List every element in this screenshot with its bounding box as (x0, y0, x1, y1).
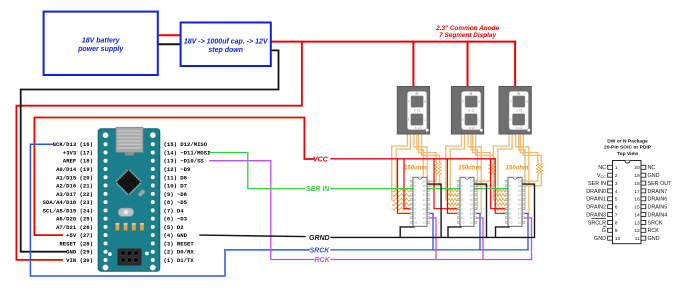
svg-text:3: 3 (615, 181, 618, 187)
svg-text:B: B (424, 100, 426, 104)
svg-text:G: G (468, 109, 470, 113)
svg-text:16: 16 (518, 198, 522, 202)
svg-text:(4) GND: (4) GND (164, 232, 188, 239)
svg-text:Top View: Top View (617, 151, 638, 157)
svg-text:7 Segment Display: 7 Segment Display (439, 32, 496, 39)
svg-text:SCK/D13 (16): SCK/D13 (16) (53, 141, 93, 148)
svg-text:17: 17 (470, 193, 474, 197)
svg-text:18: 18 (518, 189, 522, 193)
svg-text:+5V (27): +5V (27) (66, 232, 93, 239)
svg-text:18V battery: 18V battery (82, 37, 121, 44)
svg-text:17: 17 (518, 193, 522, 197)
svg-text:B: B (526, 100, 528, 104)
svg-text:GND: GND (594, 236, 606, 242)
svg-text:(7) D4: (7) D4 (164, 207, 185, 214)
svg-text:RESET (28): RESET (28) (59, 240, 93, 247)
svg-text:150ohm: 150ohm (458, 166, 481, 172)
svg-text:14: 14 (634, 213, 640, 219)
svg-text:18: 18 (423, 189, 427, 193)
svg-text:A7/D21 (26): A7/D21 (26) (56, 224, 93, 231)
svg-text:18: 18 (470, 189, 474, 193)
svg-text:E: E (408, 118, 410, 122)
svg-text:14: 14 (423, 207, 427, 211)
svg-text:15: 15 (634, 205, 640, 211)
svg-text:19: 19 (634, 173, 640, 179)
svg-text:12: 12 (470, 216, 474, 220)
svg-text:5: 5 (615, 197, 618, 203)
svg-text:13: 13 (423, 212, 427, 216)
svg-text:14: 14 (518, 207, 522, 211)
svg-text:(15) D12/MISO: (15) D12/MISO (164, 141, 208, 148)
svg-text:16: 16 (470, 198, 474, 202)
svg-text:DRAIN0: DRAIN0 (586, 189, 606, 195)
svg-text:16: 16 (423, 198, 427, 202)
svg-text:A1/D15 (20): A1/D15 (20) (56, 174, 93, 181)
svg-text:SER OUT: SER OUT (648, 181, 673, 187)
svg-text:GND: GND (648, 173, 660, 179)
svg-text:13: 13 (470, 212, 474, 216)
svg-text:11: 11 (470, 221, 473, 225)
svg-text:GRND: GRND (309, 235, 330, 242)
svg-text:G: G (515, 109, 517, 113)
svg-text:SRCK: SRCK (648, 220, 663, 226)
svg-text:SER IN: SER IN (588, 181, 606, 187)
svg-text:18V -> 1000uf cap. -> 12V: 18V -> 1000uf cap. -> 12V (184, 38, 269, 45)
svg-text:17: 17 (423, 193, 427, 197)
svg-text:B: B (478, 100, 480, 104)
svg-text:D: D (516, 126, 518, 130)
svg-text:SCL/A5/D19 (24): SCL/A5/D19 (24) (43, 207, 93, 214)
svg-text:1: 1 (615, 165, 618, 171)
svg-text:NC: NC (598, 165, 606, 171)
svg-text:(5) D2: (5) D2 (164, 224, 185, 231)
svg-text:C: C (478, 118, 480, 122)
svg-text:20-Pin SOIC or PDIP: 20-Pin SOIC or PDIP (604, 145, 652, 151)
svg-text:13: 13 (518, 212, 522, 216)
svg-text:GND: GND (648, 236, 660, 242)
svg-text:(11) D8: (11) D8 (164, 174, 188, 181)
svg-text:19: 19 (470, 184, 474, 188)
svg-text:RCK: RCK (648, 228, 660, 234)
svg-text:(3) RESET: (3) RESET (164, 240, 195, 247)
svg-text:14: 14 (470, 207, 474, 211)
svg-text:E: E (510, 118, 512, 122)
svg-text:power supply: power supply (77, 46, 124, 53)
svg-text:NC: NC (648, 165, 656, 171)
svg-text:11: 11 (518, 221, 521, 225)
svg-text:+3V3 (17): +3V3 (17) (63, 149, 93, 156)
svg-text:12: 12 (634, 228, 640, 234)
svg-text:DRAIN1: DRAIN1 (586, 197, 606, 203)
svg-text:G: G (602, 228, 606, 234)
svg-text:20: 20 (423, 180, 427, 184)
svg-text:A3/D17 (22): A3/D17 (22) (56, 191, 93, 198)
svg-text:SRCK: SRCK (310, 247, 331, 254)
svg-text:D: D (415, 126, 417, 130)
svg-text:19: 19 (518, 184, 522, 188)
svg-text:12: 12 (423, 216, 427, 220)
svg-text:RCK: RCK (315, 257, 331, 264)
svg-text:G: G (414, 109, 416, 113)
svg-text:DRAIN5: DRAIN5 (648, 205, 668, 211)
svg-text:C: C (525, 118, 527, 122)
svg-text:10: 10 (615, 236, 621, 242)
svg-text:E: E (462, 118, 464, 122)
svg-text:VCC: VCC (313, 156, 329, 163)
svg-text:10: 10 (509, 221, 513, 225)
svg-text:12: 12 (518, 216, 522, 220)
svg-text:SER IN: SER IN (306, 186, 330, 193)
svg-text:11: 11 (635, 236, 640, 242)
svg-text:AREF (18): AREF (18) (63, 158, 93, 165)
svg-text:A0/D14 (19): A0/D14 (19) (56, 166, 93, 173)
svg-text:7: 7 (615, 213, 618, 219)
svg-text:VIN (30): VIN (30) (66, 257, 93, 264)
svg-text:15: 15 (470, 202, 474, 206)
svg-text:18: 18 (634, 181, 640, 187)
svg-text:13: 13 (634, 220, 640, 226)
svg-text:4: 4 (615, 189, 618, 195)
svg-text:(13) ~D10/SS: (13) ~D10/SS (164, 158, 205, 165)
svg-text:DRAIN6: DRAIN6 (648, 197, 668, 203)
svg-text:8: 8 (615, 220, 618, 226)
svg-text:6: 6 (615, 205, 618, 211)
svg-text:DRAIN2: DRAIN2 (586, 205, 606, 211)
svg-text:(6) ~D3: (6) ~D3 (164, 216, 188, 223)
svg-text:(10) D7: (10) D7 (164, 183, 188, 190)
svg-text:(1) D1/TX: (1) D1/TX (164, 257, 195, 264)
svg-text:DRAIN7: DRAIN7 (648, 189, 668, 195)
svg-text:C: C (424, 118, 426, 122)
svg-text:(9) ~D6: (9) ~D6 (164, 191, 188, 198)
svg-text:DW or N Package: DW or N Package (607, 138, 648, 144)
svg-text:20: 20 (634, 165, 640, 171)
svg-text:(8) ~D5: (8) ~D5 (164, 199, 188, 206)
svg-text:20: 20 (518, 180, 522, 184)
svg-text:step down: step down (208, 47, 243, 54)
svg-text:A6/D20 (25): A6/D20 (25) (56, 216, 93, 223)
svg-text:(14) ~D11/MOSI: (14) ~D11/MOSI (164, 149, 211, 156)
svg-text:19: 19 (423, 184, 427, 188)
svg-text:150ohm: 150ohm (404, 166, 427, 172)
svg-text:(2) D0/RX: (2) D0/RX (164, 249, 195, 256)
svg-text:F: F (462, 100, 464, 104)
svg-text:F: F (510, 100, 512, 104)
svg-text:15: 15 (423, 202, 427, 206)
svg-text:GND (29): GND (29) (66, 249, 93, 256)
svg-text:10: 10 (461, 221, 465, 225)
svg-text:F: F (408, 100, 410, 104)
svg-text:16: 16 (634, 197, 640, 203)
svg-text:SDA/A4/D18 (23): SDA/A4/D18 (23) (43, 199, 93, 206)
svg-text:(12) ~D9: (12) ~D9 (164, 166, 191, 173)
svg-text:D: D (469, 126, 471, 130)
svg-text:VCC: VCC (597, 173, 606, 179)
svg-text:17: 17 (634, 189, 640, 195)
svg-text:2.3″ Common Anode: 2.3″ Common Anode (435, 25, 499, 32)
svg-text:9: 9 (615, 228, 618, 234)
svg-text:SRCLR: SRCLR (588, 220, 606, 226)
svg-text:A2/D16 (21): A2/D16 (21) (56, 183, 93, 190)
svg-text:150ohm: 150ohm (506, 166, 529, 172)
svg-text:DRAIN3: DRAIN3 (586, 213, 606, 219)
svg-text:11: 11 (423, 221, 426, 225)
svg-text:15: 15 (518, 202, 522, 206)
svg-text:DRAIN4: DRAIN4 (648, 213, 668, 219)
svg-text:2: 2 (615, 173, 618, 179)
svg-text:10: 10 (414, 221, 418, 225)
svg-text:20: 20 (470, 180, 474, 184)
